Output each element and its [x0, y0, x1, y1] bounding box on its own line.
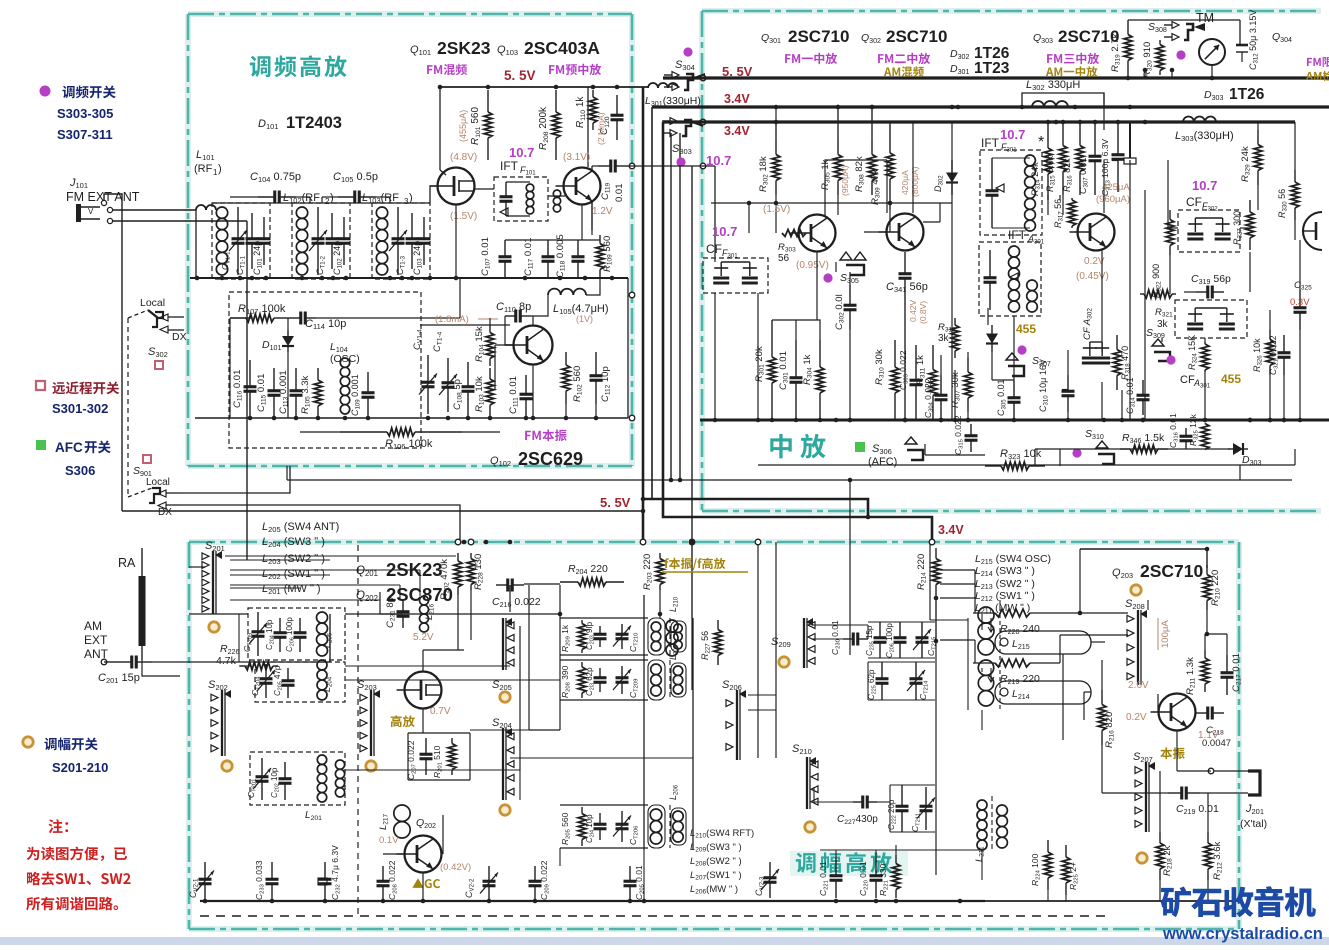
varcap CT205 [257, 612, 259, 632]
capacitor C220 [875, 858, 877, 876]
wire [494, 345, 496, 390]
wire [912, 122, 914, 213]
junction [903, 418, 908, 423]
capacitor C341 [904, 252, 906, 274]
junction [1268, 418, 1273, 423]
capacitor C305 [1013, 380, 1015, 398]
svg-text:): ) [330, 192, 334, 204]
varcap CT215 [921, 622, 923, 638]
switch S203 [370, 690, 372, 756]
svg-text:0.7V: 0.7V [430, 706, 451, 717]
title AM RF [790, 851, 908, 876]
junction [270, 899, 275, 904]
wire [849, 272, 851, 285]
svg-text:C105 0.5p: C105 0.5p [333, 171, 378, 184]
svg-text:R320 910: R320 910 [1142, 42, 1154, 78]
switch S901 square [143, 455, 151, 463]
wire [383, 853, 405, 855]
transistor Q201a [405, 672, 442, 709]
resistor R221 [895, 855, 897, 864]
switch S309 sym [1152, 339, 1164, 346]
junction [331, 276, 336, 281]
wire [519, 626, 521, 770]
wire [1101, 660, 1103, 690]
capacitor C319 [1196, 291, 1208, 293]
wire FM main rail [190, 277, 628, 279]
svg-text:C203 9Ip: C203 9Ip [585, 621, 595, 650]
resistor R323 sym [985, 465, 1001, 467]
wire [581, 205, 583, 240]
svg-text:R301 20k: R301 20k [754, 346, 766, 382]
resistor R224 [1047, 840, 1049, 852]
wire [510, 757, 693, 759]
svg-text:(1V): (1V) [576, 314, 593, 324]
junction [1282, 418, 1287, 423]
svg-text:0.2V: 0.2V [1126, 712, 1147, 723]
svg-text:R308 82k: R308 82k [854, 156, 866, 192]
junction [966, 418, 971, 423]
am bank row2 [581, 662, 583, 667]
am tuned box2 [255, 662, 345, 702]
capacitor C118 [577, 240, 579, 257]
junction [316, 416, 321, 421]
junction [669, 478, 674, 483]
capacitor C109 [367, 372, 369, 393]
wire [586, 278, 600, 295]
junction [818, 418, 823, 423]
switch S204 [502, 728, 504, 800]
wire [1257, 185, 1259, 210]
transformer L215 primary [978, 607, 994, 623]
wire [1207, 633, 1227, 635]
wire 3.4V feed2 [663, 122, 932, 542]
wire [1114, 449, 1120, 458]
svg-text:): ) [409, 192, 413, 204]
capacitor C313 [1117, 122, 1119, 155]
wire [1080, 549, 1207, 568]
wire top to Q101 [430, 186, 437, 203]
svg-text:R203 220: R203 220 [642, 554, 654, 590]
wire [1177, 770, 1211, 772]
resistor R313 [954, 318, 956, 325]
wire [775, 122, 777, 140]
junction [388, 276, 393, 281]
junction [220, 276, 225, 281]
varactor D101 [287, 330, 289, 336]
inductor L216 [420, 596, 429, 605]
junction [238, 276, 243, 281]
CF F301 box [703, 258, 768, 293]
switch S306 sym [905, 437, 917, 444]
wire [748, 694, 776, 696]
wire [935, 595, 937, 641]
wire IF ground bus [700, 419, 1329, 422]
svg-text:C103 24p: C103 24p [412, 241, 424, 275]
svg-text:(800μA): (800μA) [910, 166, 920, 197]
junction [615, 85, 620, 90]
resistor R109 [599, 235, 601, 244]
gold dot S204 [500, 805, 510, 815]
gold dot S210 [805, 822, 815, 832]
label osc [1160, 747, 1172, 759]
junction [320, 276, 325, 281]
wire [1101, 745, 1103, 793]
wire agc line [287, 479, 1292, 481]
varcap CT204 [265, 664, 267, 679]
wire [820, 849, 982, 851]
svg-text:CF: CF [706, 242, 722, 256]
junction [1116, 120, 1121, 125]
svg-text:C227430p: C227430p [837, 814, 878, 826]
svg-text:(AFC): (AFC) [868, 456, 897, 468]
wire 3.4V rail1 [652, 105, 1329, 108]
svg-text:(960μA): (960μA) [1096, 194, 1130, 205]
svg-text:1T26: 1T26 [1229, 86, 1265, 103]
junction [524, 416, 529, 421]
capacitor C110 [505, 315, 516, 317]
node [101, 659, 107, 665]
label FM mix [427, 65, 432, 74]
legend FM switch [62, 86, 74, 98]
transistor Q101 [438, 168, 475, 205]
resistor R322 [1169, 210, 1171, 220]
svg-text:(OSC): (OSC) [330, 353, 360, 365]
resistor R329 [1257, 130, 1259, 145]
wire [229, 318, 231, 418]
resistor R317 [1071, 198, 1073, 200]
wire [230, 559, 330, 561]
svg-text:R309 47k: R309 47k [870, 169, 882, 205]
dot S305 [823, 273, 832, 282]
capacitor C221 [835, 858, 837, 876]
junction [834, 418, 839, 423]
inductor L104 [340, 358, 349, 367]
svg-text:2SC710: 2SC710 [886, 27, 947, 46]
wire [923, 221, 940, 223]
wire [1159, 793, 1161, 832]
capacitor C301 [795, 340, 797, 378]
legend AM switch [44, 738, 56, 750]
resistor R307 [967, 358, 969, 372]
junction [953, 418, 958, 423]
junction [410, 276, 415, 281]
svg-text:EXT: EXT [84, 633, 108, 647]
junction [894, 899, 899, 904]
label hi-amp [391, 715, 402, 727]
svg-text:R208 200k: R208 200k [538, 106, 550, 150]
am tuned box3 [250, 752, 345, 805]
wire [974, 570, 976, 613]
svg-text:R202 470k: R202 470k [439, 559, 451, 600]
svg-text:C341 56p: C341 56p [886, 281, 928, 294]
junction [203, 899, 208, 904]
capacitor C107 [504, 240, 506, 257]
wire [1059, 635, 1061, 663]
CF F302 sym [1187, 233, 1203, 236]
transistor Q203a [1159, 694, 1196, 731]
capacitor C219 [1168, 792, 1182, 794]
wire [981, 850, 983, 880]
wire [1102, 792, 1160, 794]
wire [659, 590, 661, 618]
junction [1012, 418, 1017, 423]
capacitor C316 [1185, 428, 1187, 436]
wire thick mid [643, 499, 868, 517]
junction [344, 276, 349, 281]
switch S901 [149, 488, 160, 503]
wire [559, 700, 561, 730]
svg-text:(0.45V): (0.45V) [1076, 271, 1109, 282]
svg-text:5. 5V: 5. 5V [600, 495, 631, 510]
svg-text:R219 220: R219 220 [1000, 673, 1040, 686]
label AGC [412, 878, 423, 888]
wire [505, 239, 600, 241]
svg-text:(X'tal): (X'tal) [1240, 818, 1267, 830]
capacitor C117 [547, 240, 549, 257]
svg-text:): ) [218, 163, 222, 175]
svg-text:C319 56p: C319 56p [1191, 273, 1231, 286]
capacitor C205b [287, 668, 289, 681]
wire [1239, 20, 1241, 45]
switch S310 sym [1096, 441, 1108, 448]
wire [246, 221, 248, 560]
capacitor C233 [271, 862, 273, 879]
am bank row1 [581, 620, 583, 624]
svg-text:C219 0.01: C219 0.01 [1176, 803, 1219, 816]
resistor R106 [340, 431, 387, 433]
wire [757, 690, 759, 758]
wire [329, 614, 331, 662]
junction [1093, 120, 1098, 125]
junction [438, 85, 443, 90]
wire [439, 87, 441, 170]
wire [380, 592, 403, 614]
svg-text:S301-302: S301-302 [52, 401, 108, 416]
wire [1160, 792, 1168, 794]
wire [470, 729, 560, 731]
capacitor C104 [258, 196, 275, 198]
wire [627, 278, 629, 418]
wire 5.5V feed [642, 87, 645, 542]
capacitor C208 [382, 866, 384, 881]
node [640, 539, 646, 545]
inductor L204b [317, 660, 327, 670]
svg-text:4.7k: 4.7k [216, 655, 237, 667]
svg-text:R324 15K: R324 15K [1187, 335, 1199, 370]
junction [848, 418, 853, 423]
capacitor C207 [425, 738, 427, 754]
capacitor C114 [290, 317, 301, 319]
switch S202 [221, 690, 223, 756]
capacitor C314 [1142, 380, 1144, 395]
wire [1239, 465, 1241, 480]
IFT A301 box [979, 242, 1041, 316]
dot S308 [1176, 50, 1185, 59]
resistor R315 [1062, 122, 1064, 146]
svg-text:425μA: 425μA [1102, 182, 1130, 193]
wire 10.7 dist [711, 202, 952, 204]
wire [1299, 330, 1301, 420]
dot S303 [676, 157, 685, 166]
wire [987, 308, 989, 325]
dot S310 [1072, 448, 1081, 457]
switch S205 [502, 618, 504, 670]
svg-text:R104 15k: R104 15k [474, 326, 486, 362]
resistor R214 [935, 548, 937, 559]
switch S308 [1184, 24, 1193, 40]
svg-text:R101 560: R101 560 [470, 107, 482, 145]
svg-text:C216 0.022: C216 0.022 [492, 596, 541, 609]
wire [935, 598, 937, 875]
wire 3.4V feed [651, 107, 653, 466]
svg-text:DX: DX [172, 331, 187, 343]
wire [1080, 682, 1102, 684]
svg-text:RA: RA [118, 556, 136, 570]
IFT F101 cap [505, 182, 507, 197]
svg-text:5. 5V: 5. 5V [504, 68, 536, 83]
svg-text:R216 820: R216 820 [1104, 712, 1116, 748]
label AM mix [884, 67, 891, 76]
wire [142, 660, 180, 676]
junction [774, 120, 779, 125]
wire [1269, 375, 1271, 420]
gold dot S205 [500, 692, 510, 702]
wire [967, 352, 969, 358]
green square S306 [855, 442, 865, 452]
junction [195, 276, 200, 281]
wire [238, 614, 240, 662]
resistor R110 [592, 90, 594, 97]
node [700, 75, 706, 81]
svg-text:C2l4 10p: C2l4 10p [585, 814, 595, 843]
wire [316, 317, 460, 319]
capacitor C231 [402, 600, 404, 612]
svg-text:www.crystalradio.cn: www.crystalradio.cn [1162, 925, 1323, 943]
capacitor C120 [616, 95, 618, 115]
capacitor C218 [1196, 712, 1208, 714]
wire [837, 107, 839, 140]
junction [421, 899, 426, 904]
svg-text:C303 0.022: C303 0.022 [898, 350, 910, 390]
resistor R309 [889, 122, 891, 153]
switch S209 [803, 618, 805, 668]
wire [1204, 634, 1206, 650]
wire [813, 787, 815, 802]
junction [756, 418, 761, 423]
wire [1059, 195, 1061, 200]
wire [849, 480, 851, 655]
svg-text:10.7: 10.7 [509, 145, 534, 160]
wire [457, 595, 459, 650]
svg-text:FM EXT ANT: FM EXT ANT [66, 190, 140, 204]
capacitor C116 [249, 360, 251, 387]
junction [836, 105, 841, 110]
svg-text:100μA: 100μA [1160, 620, 1171, 648]
junction [870, 105, 875, 110]
junction [1066, 418, 1071, 423]
wire [113, 220, 247, 222]
svg-text:C204 10p: C204 10p [265, 619, 275, 650]
gold dot S209 [779, 657, 789, 667]
junction [794, 418, 799, 423]
junction [523, 276, 528, 281]
wire [985, 900, 1240, 902]
wire [422, 709, 424, 733]
wire [1159, 880, 1161, 901]
resistor R226 [240, 665, 245, 667]
switch S302 [148, 310, 158, 318]
capacitor C236 [899, 622, 901, 638]
junction [1061, 120, 1066, 125]
svg-text:3.4V: 3.4V [724, 124, 750, 138]
wire line465 [758, 464, 1295, 466]
wire [225, 555, 456, 557]
svg-text:C233 0.033: C233 0.033 [254, 860, 266, 900]
junction [610, 276, 615, 281]
wire [532, 365, 534, 418]
wire [816, 252, 818, 320]
wire [422, 873, 424, 901]
node [700, 163, 706, 169]
svg-text:C202 10p: C202 10p [270, 767, 280, 798]
capacitor C209 [534, 866, 536, 881]
svg-text:2SK23: 2SK23 [437, 38, 491, 58]
junction [487, 899, 492, 904]
wire [287, 318, 289, 330]
resistor R103 [489, 368, 491, 379]
capacitor C222 [901, 785, 903, 806]
label AM det [1306, 72, 1313, 80]
svg-text:R107 100k: R107 100k [238, 303, 286, 316]
wire [864, 231, 887, 233]
switch S210 [806, 757, 808, 809]
resistor R107 [230, 317, 246, 319]
junction [446, 416, 451, 421]
note line3 [26, 897, 40, 911]
junction [874, 899, 879, 904]
resistor R208 [555, 90, 557, 112]
wire [152, 614, 330, 662]
wire [816, 252, 818, 320]
resistor R203 [659, 553, 661, 559]
wire [1101, 382, 1103, 420]
wire [345, 665, 510, 667]
resistor R346 [1120, 448, 1130, 450]
label FM 2nd IF [878, 54, 883, 63]
wire [936, 640, 955, 642]
inductor L105 [548, 289, 561, 295]
svg-text:R210 220: R210 220 [1210, 570, 1222, 606]
svg-text:56: 56 [778, 253, 790, 264]
resistor R325 [1204, 423, 1206, 426]
wire FM bottom rail [195, 417, 628, 419]
junction [1141, 418, 1146, 423]
varcap CV2-3 [769, 862, 771, 878]
svg-text:1T23: 1T23 [974, 60, 1010, 77]
junction [428, 276, 433, 281]
svg-text:(1.8mA): (1.8mA) [435, 314, 469, 325]
transistor Q202a [405, 836, 442, 873]
svg-text:C109 0.001: C109 0.001 [350, 374, 362, 416]
junction [400, 276, 405, 281]
wire [1047, 195, 1049, 215]
transistor Q302 [887, 214, 924, 251]
junction [594, 416, 599, 421]
capacitor C302 [849, 285, 851, 305]
wire [1161, 338, 1163, 342]
dot S307 [1017, 345, 1026, 354]
junction [939, 418, 944, 423]
